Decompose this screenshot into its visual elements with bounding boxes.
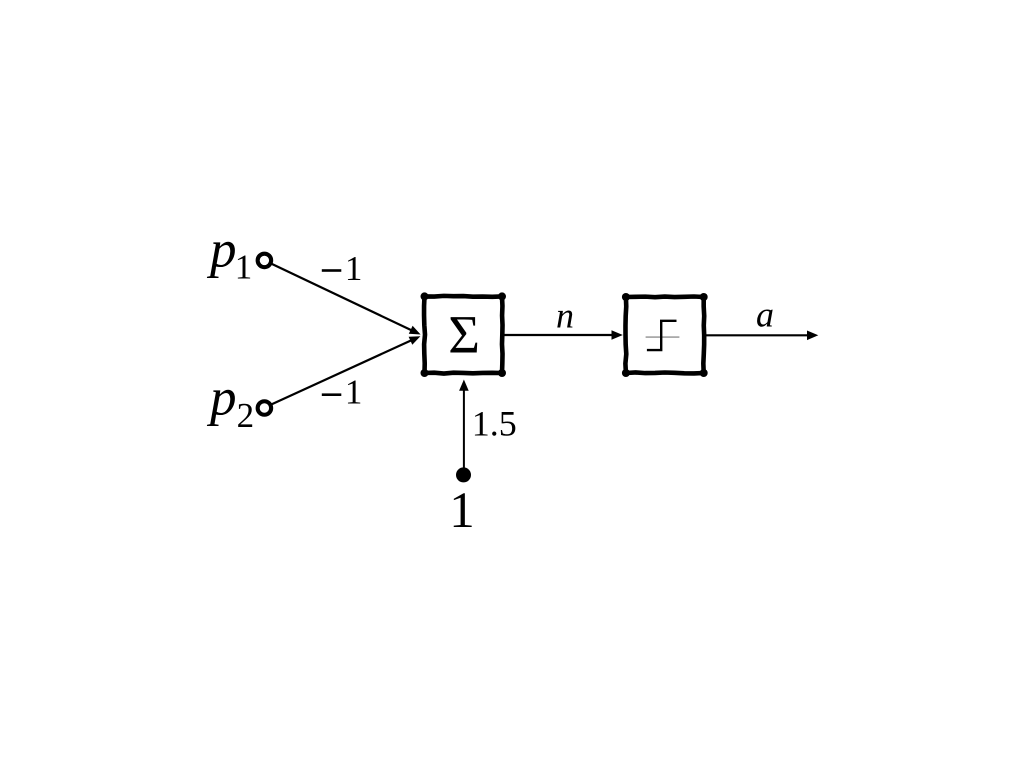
input terminal circle p2 [258,401,272,415]
weight label -1 (top) [322,249,363,288]
hardlim step icon [646,321,680,350]
svg-text:1.5: 1.5 [472,404,517,444]
input label p1 [206,221,252,287]
bias input node dot [456,467,471,482]
svg-text:Σ: Σ [448,304,480,365]
bias weight label 1.5 [472,404,517,444]
arrowhead of bias wire (up) [459,380,469,391]
bias input label 1 [449,483,475,539]
svg-text:p: p [206,369,237,427]
input label p2 [206,369,254,436]
wire from p2 terminal to summer [272,340,413,404]
svg-text:n: n [556,296,574,336]
svg-text:1: 1 [345,373,363,412]
arrowhead of wire n [612,330,623,340]
weight label -1 (bottom) [322,373,363,412]
wire n from summer to hardlim [505,334,614,336]
arrowhead from p2 wire into summer [409,336,421,345]
svg-text:2: 2 [237,396,255,435]
arrowhead of wire a [807,331,818,341]
wire from p1 terminal to summer [272,264,413,331]
svg-text:p: p [206,221,237,279]
arrowhead from p1 wire into summer [409,326,421,335]
net label a [756,295,774,335]
svg-text:1: 1 [345,249,363,288]
svg-text:a: a [756,295,774,335]
bias wire from dot to summer [463,390,465,468]
input terminal circle p1 [258,254,272,268]
net label n [556,296,574,336]
summer box [421,292,507,377]
svg-text:1: 1 [235,248,253,287]
wire a from hardlim to output [706,334,809,336]
sigma symbol in summer [448,304,480,365]
svg-text:1: 1 [449,483,475,539]
hard-limit transfer function box [622,293,708,377]
